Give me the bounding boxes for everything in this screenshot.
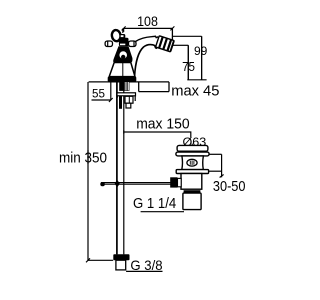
faucet base: [108, 77, 137, 82]
svg-text:30-50: 30-50: [213, 177, 246, 194]
30-50 extension top from flange: [208, 153, 222, 155]
deck section right cut edge: [168, 82, 170, 92]
threaded stud: [119, 96, 122, 109]
spout lower profile (dome): [135, 45, 158, 77]
min 350 bottom extension to hose nut: [88, 259, 113, 261]
rod knob at waste: [170, 177, 177, 187]
deck section top line: [89, 81, 169, 83]
aerator: [156, 36, 175, 52]
body centerline: [122, 63, 124, 77]
supply tube left edge: [116, 82, 118, 255]
dimension 55 right extension: [110, 82, 112, 100]
waste boss oval: [187, 159, 197, 166]
body cone: [109, 63, 135, 77]
hose nut: [113, 254, 129, 260]
waste bottom flange: [176, 170, 208, 174]
svg-text:108: 108: [137, 13, 158, 29]
medallion oval: [119, 51, 128, 60]
pop-up rod horizontal: [101, 182, 171, 184]
deck hole right edge: [138, 82, 140, 92]
svg-text:G 1 1/4: G 1 1/4: [133, 194, 176, 211]
deck section bottom right: [139, 91, 169, 93]
svg-text:max 45: max 45: [171, 83, 219, 99]
waste tail upper: [181, 174, 202, 190]
waste dark band: [184, 190, 201, 193]
waste top disc: [177, 145, 208, 151]
waste under-disc tabs: [187, 151, 189, 152]
dimension 55 tick: [109, 98, 113, 102]
min 350 line over text: [87, 150, 89, 164]
spout upper profile: [136, 36, 159, 41]
faucet centerline: [122, 28, 124, 33]
rod end bulb: [100, 182, 105, 186]
max 150 left end tick: [123, 130, 125, 133]
dimension max 150 line: [124, 132, 191, 137]
handle top knob: [120, 34, 126, 40]
extension line spout tip to 99: [173, 35, 202, 37]
svg-text:G 3/8: G 3/8: [130, 258, 162, 273]
dimension 99 line over text: [201, 36, 203, 80]
medallion dot: [121, 55, 125, 59]
hose stub: [116, 260, 126, 270]
30-50 extension bottom from body: [209, 170, 222, 172]
deck level connector for 75/99: [187, 79, 206, 81]
dimension 99 line: [201, 36, 203, 80]
waste tail lower: [183, 193, 201, 210]
min 350 corner tick: [86, 258, 90, 262]
handle hub: [119, 38, 129, 47]
dimension 108 line: [124, 28, 173, 41]
dimension 75 line over text: [187, 45, 189, 80]
handle right prong: [129, 41, 137, 47]
rod joint diamond: [115, 180, 120, 188]
mounting washer: [117, 93, 136, 96]
extension line spout outlet to 75: [173, 44, 188, 46]
svg-text:99: 99: [194, 44, 208, 58]
svg-text:max 150: max 150: [136, 116, 189, 133]
handle ellipse prong: [111, 29, 121, 41]
mounting nut: [125, 96, 133, 103]
shank below deck: [119, 82, 129, 91]
handle skirt: [113, 46, 132, 62]
dimension 55 underline: [92, 99, 111, 101]
dimension 75 line: [187, 45, 189, 80]
G 3/8 underline: [126, 270, 162, 272]
svg-text:min 350: min 350: [59, 150, 107, 167]
svg-text:55: 55: [92, 86, 105, 100]
waste rim: [176, 152, 209, 156]
waste neck: [182, 156, 204, 170]
G 1 1/4 underline: [141, 211, 184, 213]
dimension min 350 line: [87, 82, 89, 260]
dimension 108 ticks: [122, 26, 175, 30]
supply tube right edge: [123, 82, 125, 255]
handle left prong: [105, 41, 112, 47]
30-50 bottom tick: [220, 175, 224, 178]
30-50 dimension line: [221, 154, 223, 177]
